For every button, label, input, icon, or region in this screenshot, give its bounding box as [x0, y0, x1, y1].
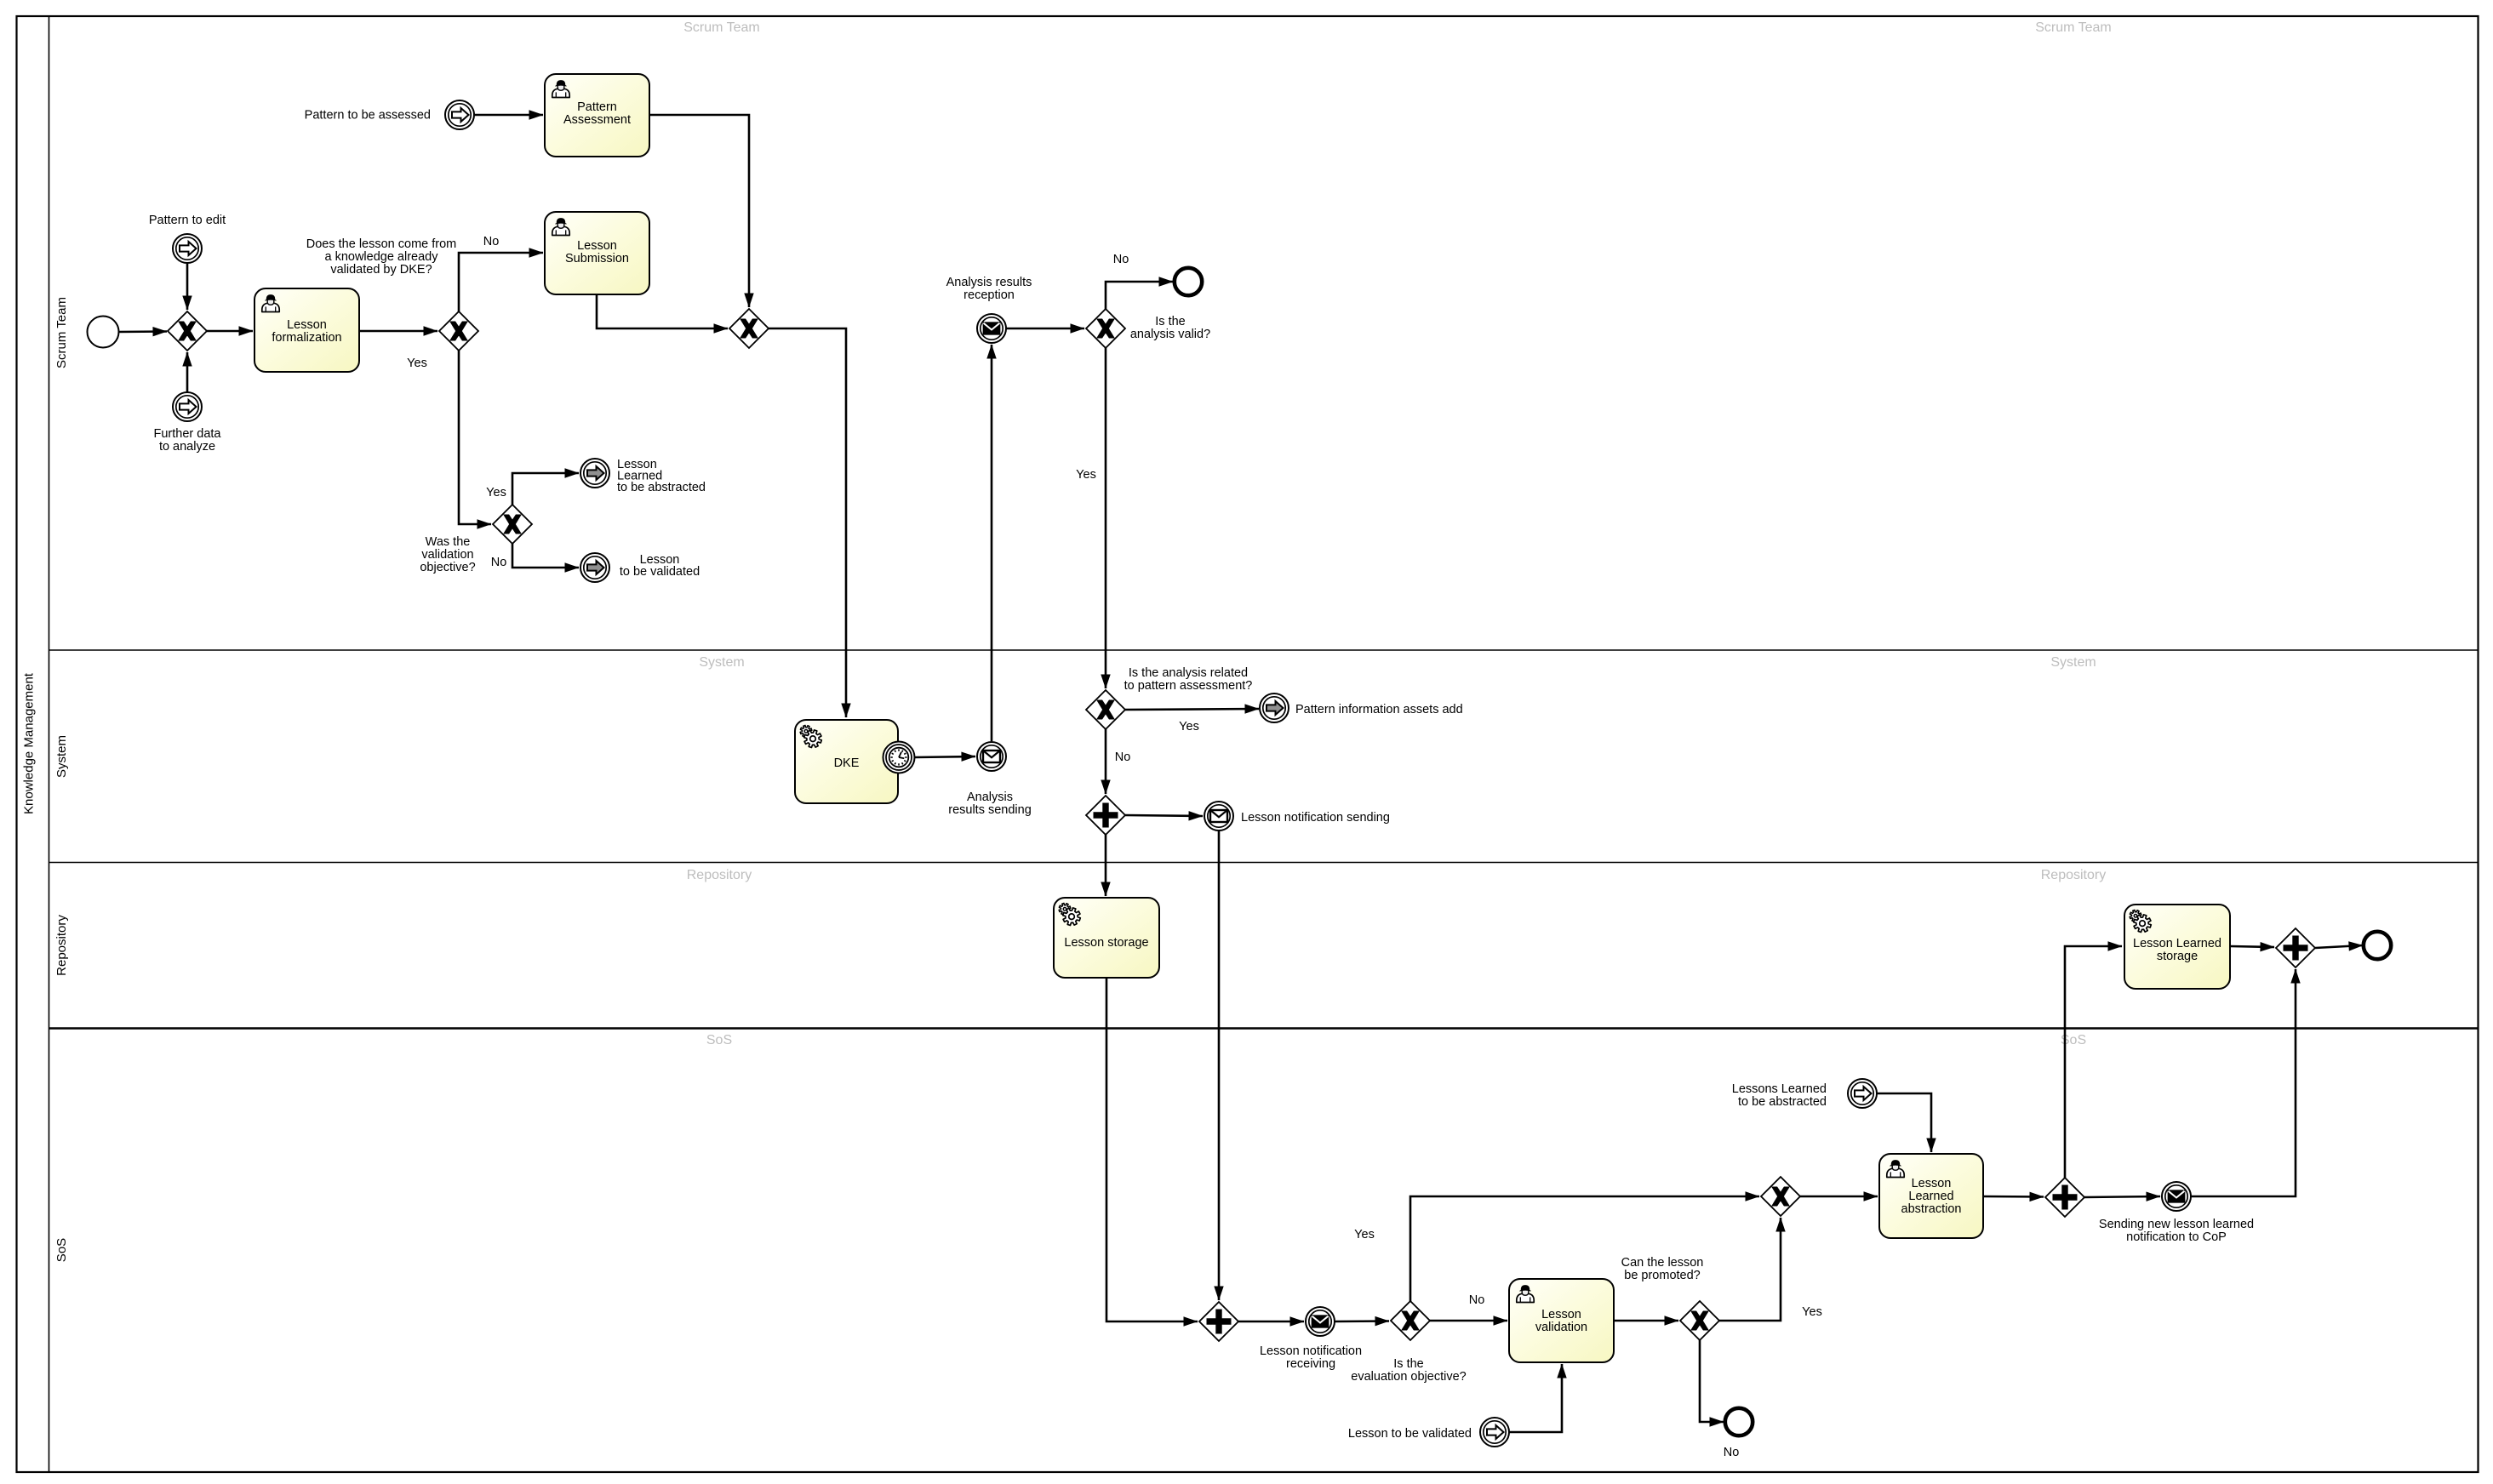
lane label Scrum Team	[54, 297, 69, 368]
wire gateway9 Yes to gateway10	[1410, 1196, 1759, 1301]
gateway parallel split system (parallel)	[1086, 796, 1125, 835]
svg-text:No: No	[1113, 253, 1129, 266]
svg-text:Submission: Submission	[565, 252, 629, 265]
wire Lesson Submission to gateway3	[597, 294, 728, 328]
gray lane title Scrum Team page1	[683, 20, 760, 35]
event end after invalid analysis (end)	[1175, 268, 1202, 295]
gateway merge to DKE (exclusive)	[729, 309, 769, 348]
svg-text:to be abstracted: to be abstracted	[617, 481, 706, 494]
gray lane title System page1	[699, 655, 744, 670]
svg-text:No: No	[1115, 751, 1131, 764]
svg-text:Lesson Learned: Lesson Learned	[2133, 937, 2221, 950]
label Yes (evaluation objective)	[1354, 1228, 1375, 1241]
svg-text:No: No	[491, 556, 507, 569]
svg-text:System: System	[54, 735, 69, 778]
task Lesson validation	[1509, 1279, 1614, 1362]
svg-text:receiving: receiving	[1286, 1357, 1335, 1371]
wire gateway7 to Lesson storage	[1105, 835, 1107, 896]
svg-text:DKE: DKE	[834, 756, 860, 770]
lane divider Repository / SoS	[49, 1027, 2479, 1029]
task DKE	[795, 720, 898, 803]
svg-text:System: System	[699, 655, 744, 670]
task Lesson storage	[1054, 898, 1159, 978]
svg-text:Further data: Further data	[154, 427, 222, 441]
event final end event (end)	[2364, 932, 2391, 959]
lane label Repository	[54, 915, 69, 976]
wire start to gateway1	[118, 330, 167, 333]
label Was the validation objective?	[420, 535, 475, 574]
svg-text:Does the lesson come from: Does the lesson come from	[306, 237, 457, 251]
svg-text:notification to CoP: notification to CoP	[2126, 1230, 2227, 1244]
pool label Knowledge Management	[22, 672, 37, 814]
wire Lesson notification receiving to gateway9	[1335, 1320, 1389, 1322]
label Analysis results sending	[948, 791, 1032, 817]
wire Lesson Learned storage to gateway12	[2230, 946, 2274, 947]
svg-text:be promoted?: be promoted?	[1624, 1269, 1700, 1282]
svg-text:Learned: Learned	[1908, 1190, 1953, 1203]
label Pattern to edit	[149, 214, 226, 227]
wire gateway12 to final end event	[2315, 945, 2363, 948]
lane divider Scrum Team / System	[49, 649, 2479, 651]
svg-text:System: System	[2050, 655, 2096, 670]
svg-text:Pattern: Pattern	[577, 100, 617, 114]
wire Further data to analyze into gateway1	[186, 352, 189, 392]
gray lane title Repository page2	[2041, 868, 2106, 882]
svg-text:to be validated: to be validated	[620, 565, 700, 579]
gateway parallel join repository (parallel)	[2276, 928, 2315, 967]
svg-text:reception: reception	[963, 288, 1015, 302]
event Lesson to be validated (link throw)	[580, 553, 609, 582]
event Lesson notification receiving (message catch)	[1306, 1307, 1335, 1336]
label Lesson Learned to be abstracted	[617, 458, 706, 494]
svg-text:to be abstracted: to be abstracted	[1738, 1095, 1827, 1109]
svg-text:Pattern to edit: Pattern to edit	[149, 214, 226, 227]
wire Lesson formalization to gateway2	[359, 330, 437, 333]
wire gateway1 to Lesson formalization	[207, 330, 253, 333]
wire gateway7 to Lesson notification sending	[1125, 815, 1203, 816]
label Is the analysis valid?	[1130, 315, 1210, 341]
event Further data to analyze (link catch)	[173, 392, 202, 421]
gateway Is the analysis valid? (exclusive)	[1086, 309, 1125, 348]
svg-text:Sending new lesson learned: Sending new lesson learned	[2099, 1218, 2254, 1231]
label Further data to analyze	[154, 427, 222, 454]
label Yes (analysis valid)	[1076, 468, 1096, 482]
label No (promoted)	[1724, 1446, 1740, 1459]
event Lesson Learned to be abstracted (link throw)	[580, 459, 609, 488]
wire Lesson validation to gateway Can the lesson be promoted	[1614, 1320, 1678, 1322]
event Analysis results sending (message throw)	[977, 742, 1006, 771]
wire gateway5 Yes to gateway6	[1105, 348, 1107, 688]
label Lesson notification receiving	[1260, 1344, 1362, 1371]
label Sending new lesson learned notification to CoP	[2099, 1218, 2254, 1244]
wire gateway10 to Lesson Learned abstraction	[1800, 1196, 1878, 1198]
lane divider System / Repository	[49, 862, 2479, 864]
svg-text:Is the: Is the	[1155, 315, 1185, 328]
svg-text:Yes: Yes	[486, 486, 506, 499]
svg-text:Is the: Is the	[1393, 1357, 1423, 1371]
svg-text:Scrum Team: Scrum Team	[683, 20, 760, 35]
label Can the lesson be promoted?	[1621, 1256, 1704, 1282]
label Pattern information assets add	[1295, 703, 1463, 716]
wire gateway4 No to Lesson to be validated	[512, 544, 579, 568]
wire promoted Yes to gateway10	[1719, 1218, 1781, 1321]
gateway merge inputs (exclusive)	[168, 311, 207, 351]
wire Lesson Learned abstraction to gateway11	[1983, 1196, 2044, 1198]
svg-text:objective?: objective?	[420, 561, 475, 574]
svg-text:Repository: Repository	[2041, 868, 2106, 882]
svg-text:Assessment: Assessment	[563, 113, 631, 127]
label Analysis results reception	[946, 276, 1032, 302]
event start (Scrum Team)	[88, 317, 119, 348]
svg-text:validated by DKE?: validated by DKE?	[330, 263, 432, 277]
gateway Does the lesson come from a knowledge already validated by DKE? (exclusive)	[439, 311, 478, 351]
svg-text:evaluation objective?: evaluation objective?	[1351, 1370, 1466, 1384]
gateway parallel split after abstraction (parallel)	[2045, 1178, 2084, 1217]
label No (analysis valid)	[1113, 253, 1129, 266]
gray lane title SoS page2	[2061, 1033, 2086, 1047]
svg-text:Lesson: Lesson	[1541, 1308, 1581, 1321]
svg-text:abstraction: abstraction	[1901, 1202, 1962, 1216]
label Lesson to be validated (SoS)	[1348, 1427, 1472, 1441]
task Lesson Submission	[545, 212, 649, 294]
svg-text:Repository: Repository	[54, 915, 69, 976]
event Analysis results reception (message catch)	[977, 314, 1006, 343]
event Sending new lesson learned notification to CoP (message throw)	[2162, 1182, 2191, 1211]
label Is the evaluation objective?	[1351, 1357, 1466, 1384]
wire gateway11 up to Lesson Learned storage	[2065, 946, 2122, 1178]
wire DKE timer to Analysis results sending	[914, 756, 975, 757]
label Lessons Learned to be abstracted	[1732, 1082, 1827, 1109]
svg-text:validation: validation	[1535, 1321, 1587, 1334]
svg-text:Analysis results: Analysis results	[946, 276, 1032, 289]
label Yes (related to pattern)	[1179, 720, 1199, 733]
svg-text:Yes: Yes	[1354, 1228, 1375, 1241]
wire gateway6 No to gateway7	[1105, 729, 1107, 794]
task Lesson Learned abstraction	[1879, 1154, 1983, 1238]
task Pattern Assessment	[545, 74, 649, 157]
svg-text:Yes: Yes	[1802, 1305, 1822, 1319]
svg-text:Can the lesson: Can the lesson	[1621, 1256, 1704, 1270]
wire Analysis results reception to gateway5	[1006, 328, 1084, 330]
event Lessons Learned to be abstracted (link catch)	[1848, 1079, 1877, 1108]
gray lane title Scrum Team page2	[2035, 20, 2112, 35]
svg-text:validation: validation	[421, 548, 473, 562]
svg-text:Lesson: Lesson	[577, 239, 617, 253]
gateway Can the lesson be promoted? (exclusive)	[1680, 1301, 1719, 1340]
event end after not promoted (end)	[1725, 1408, 1753, 1435]
svg-text:to pattern assessment?: to pattern assessment?	[1124, 679, 1253, 693]
svg-text:SoS: SoS	[54, 1238, 69, 1262]
gateway Is the evaluation objective? (exclusive)	[1391, 1301, 1430, 1340]
svg-text:Scrum Team: Scrum Team	[54, 297, 69, 368]
label No (gateway4)	[491, 556, 507, 569]
svg-text:No: No	[1469, 1293, 1485, 1307]
label Lesson notification sending	[1241, 811, 1390, 825]
svg-text:Lesson notification sending: Lesson notification sending	[1241, 811, 1390, 825]
svg-text:formalization: formalization	[272, 331, 341, 345]
svg-text:Pattern information assets add: Pattern information assets add	[1295, 703, 1463, 716]
svg-text:Lesson: Lesson	[1912, 1177, 1952, 1190]
svg-text:results sending: results sending	[948, 803, 1032, 817]
svg-text:Pattern to be assessed: Pattern to be assessed	[305, 109, 431, 123]
wire gateway8 to Lesson notification receiving	[1238, 1321, 1304, 1323]
label Yes (promoted)	[1802, 1305, 1822, 1319]
svg-text:Analysis: Analysis	[967, 791, 1013, 804]
svg-text:Yes: Yes	[407, 357, 427, 370]
label Pattern to be assessed	[305, 109, 431, 123]
task Lesson Learned storage	[2124, 905, 2230, 989]
label No (related to pattern)	[1115, 751, 1131, 764]
svg-text:Lesson storage: Lesson storage	[1064, 936, 1148, 950]
svg-text:Yes: Yes	[1076, 468, 1096, 482]
wire gateway4 Yes to Lesson Learned to be abstracted	[512, 473, 579, 505]
label No (gateway2 to Lesson Submission)	[483, 235, 500, 248]
wire Sending notification to gateway12	[2191, 969, 2296, 1196]
svg-text:Was the: Was the	[426, 535, 471, 549]
wire Lesson storage to gateway8	[1106, 978, 1198, 1321]
lane label System	[54, 735, 69, 778]
svg-text:No: No	[1724, 1446, 1740, 1459]
event Pattern to be assessed (link catch)	[445, 100, 474, 129]
svg-text:a knowledge already: a knowledge already	[324, 250, 438, 264]
wire gateway3 to DKE	[769, 328, 846, 717]
svg-text:Yes: Yes	[1179, 720, 1199, 733]
svg-text:Lesson: Lesson	[287, 318, 327, 332]
gray lane title SoS page1	[706, 1033, 732, 1047]
svg-text:Knowledge Management: Knowledge Management	[22, 672, 37, 814]
event Pattern to edit (link catch)	[173, 234, 202, 263]
label Does the lesson come from a knowledge already validated by DKE?	[306, 237, 457, 277]
svg-text:Lessons Learned: Lessons Learned	[1732, 1082, 1827, 1096]
svg-text:analysis valid?: analysis valid?	[1130, 328, 1210, 341]
wire gateway5 No to end event	[1106, 282, 1173, 309]
task Lesson formalization	[254, 288, 359, 372]
wire promoted No to end event	[1700, 1340, 1724, 1422]
svg-text:storage: storage	[2157, 950, 2198, 963]
wire Analysis results sending up to Analysis results reception	[991, 345, 993, 741]
event timer boundary on DKE	[883, 742, 915, 773]
label No (evaluation objective)	[1469, 1293, 1485, 1307]
wire Pattern to edit into gateway1	[186, 263, 189, 310]
wire Lesson notification sending down to gateway8	[1218, 830, 1221, 1300]
label Is the analysis related to pattern assessment?	[1124, 666, 1253, 693]
wire gateway2 No to Lesson Submission	[459, 253, 543, 311]
svg-text:Is the analysis related: Is the analysis related	[1129, 666, 1248, 680]
event Lesson to be validated (link catch)	[1480, 1418, 1509, 1447]
label Yes (gateway4)	[486, 486, 506, 499]
lane label SoS	[54, 1238, 69, 1262]
wire gateway6 Yes to Pattern information assets add	[1125, 709, 1259, 710]
gateway merge before abstraction (exclusive)	[1761, 1177, 1800, 1216]
svg-text:Repository: Repository	[687, 868, 752, 882]
gateway parallel join SoS (parallel)	[1199, 1302, 1238, 1341]
wire gateway2 Yes to gateway4	[459, 351, 491, 524]
wire Lesson to be validated into Lesson validation	[1509, 1364, 1562, 1432]
svg-text:Lesson to be validated: Lesson to be validated	[1348, 1427, 1472, 1441]
wire Lessons Learned to be abstracted into Lesson Learned abstraction	[1877, 1093, 1931, 1152]
gateway Is the analysis related to pattern assessment? (exclusive)	[1086, 690, 1125, 729]
wire Pattern to be assessed to Pattern Assessment	[474, 114, 543, 117]
event Pattern information assets add (link throw)	[1260, 693, 1289, 722]
gray lane title Repository page1	[687, 868, 752, 882]
event Lesson notification sending (message throw)	[1204, 802, 1233, 830]
label Lesson to be validated (scrum)	[620, 553, 700, 579]
gateway Was the validation objective? (exclusive)	[493, 505, 532, 544]
svg-text:Lesson notification: Lesson notification	[1260, 1344, 1362, 1358]
svg-text:to analyze: to analyze	[159, 440, 215, 454]
svg-text:SoS: SoS	[706, 1033, 732, 1047]
wire gateway11 to Sending new lesson learned notification	[2084, 1196, 2160, 1197]
gray lane title System page2	[2050, 655, 2096, 670]
svg-text:No: No	[483, 235, 500, 248]
wire gateway9 No to Lesson validation	[1430, 1320, 1507, 1322]
svg-text:Scrum Team: Scrum Team	[2035, 20, 2112, 35]
wire Pattern Assessment to gateway3	[649, 115, 749, 307]
label Yes (gateway2 down)	[407, 357, 427, 370]
